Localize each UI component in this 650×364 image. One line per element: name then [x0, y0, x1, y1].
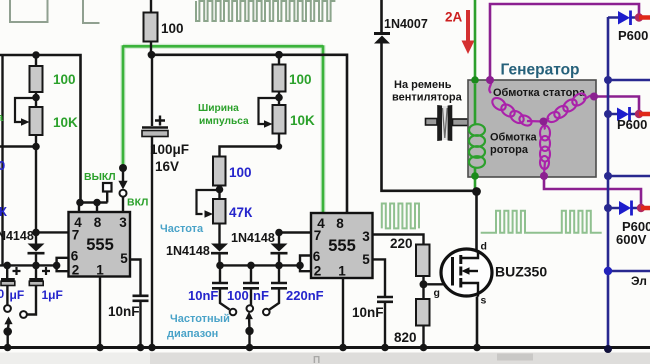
wire: U2 pin7	[279, 231, 311, 233]
wire: U1 pin1 to ground	[99, 277, 101, 348]
diode P600 (second)	[617, 108, 629, 122]
waveform trace 3 (PWM pulses above 220 resistor)	[382, 204, 419, 229]
capacitor 100uF 16V electrolytic	[151, 55, 153, 126]
svg-text:1μF: 1μF	[42, 288, 63, 302]
svg-text:0: 0	[0, 287, 5, 301]
switch wiper arrow (selector)	[248, 316, 251, 330]
svg-text:импульса: импульса	[199, 116, 249, 127]
node: diode 1 output	[635, 13, 643, 21]
svg-text:0: 0	[0, 158, 5, 173]
capacitor electrolytic 1uF	[35, 265, 37, 278]
svg-text:7: 7	[72, 228, 80, 243]
node: stator phase B tap	[590, 93, 598, 101]
wire: diode branch 2	[608, 113, 637, 116]
node: drain junction	[472, 187, 481, 196]
svg-text:100: 100	[227, 288, 249, 303]
svg-text:47К: 47К	[229, 205, 253, 220]
svg-text:1N4007: 1N4007	[384, 17, 428, 31]
svg-text:Частота: Частота	[160, 223, 204, 235]
node: 10K bottom	[32, 143, 40, 151]
wire: stator phase A to top bus (magenta)	[490, 4, 639, 78]
wire: 1N4007 to drain node	[382, 44, 477, 191]
svg-text:220nF: 220nF	[286, 288, 324, 303]
resistor 100 (top, black label)	[144, 13, 158, 42]
wire: left timing chain vertical	[35, 55, 37, 265]
svg-text:600V: 600V	[616, 232, 647, 247]
wire: pin 7 of U1	[36, 231, 69, 233]
svg-text:Ширина: Ширина	[198, 103, 239, 114]
red arrow (current direction)	[466, 10, 470, 42]
svg-text:BUZ350: BUZ350	[495, 264, 547, 280]
switch ВКЛ arm and contact	[119, 164, 127, 172]
wire: U2 pin6/pin2 bracket	[300, 256, 311, 272]
op-amp/timer U2 555	[311, 213, 373, 278]
potentiometer 10K (middle)	[273, 105, 286, 134]
svg-text:5: 5	[120, 251, 128, 266]
wire: green rotor feed	[474, 0, 477, 190]
wire: red output stub 2	[639, 112, 650, 117]
node: navy bus to ground	[604, 345, 612, 353]
svg-text:ВЫКЛ: ВЫКЛ	[84, 171, 116, 183]
svg-text:10nF: 10nF	[188, 288, 218, 303]
bottom gray band	[0, 353, 650, 364]
node: 100/10K junction	[32, 94, 40, 102]
wire: left capacitor bus	[0, 264, 57, 266]
svg-text:1N4148: 1N4148	[0, 229, 34, 243]
wire: navy stub y271	[608, 270, 650, 273]
wire: red output stub 3	[641, 206, 650, 211]
node: left selector on ground bus	[4, 344, 12, 352]
svg-text:10nF: 10nF	[352, 305, 384, 320]
svg-text:2А: 2А	[445, 10, 463, 25]
wire: timing capacitor bus	[220, 264, 300, 266]
svg-text:g: g	[434, 287, 440, 299]
bottom ground bus	[0, 346, 650, 349]
svg-text:2: 2	[314, 264, 322, 279]
svg-text:8: 8	[336, 216, 344, 231]
waveform trace 2 (fast square wave, top-middle)	[196, 1, 335, 21]
svg-text:1: 1	[96, 263, 104, 278]
svg-text:ротора: ротора	[490, 144, 529, 156]
svg-text:3: 3	[362, 229, 370, 244]
svg-text:Частотный: Частотный	[170, 313, 230, 325]
generator block	[468, 80, 596, 177]
diode 1N4007	[380, 0, 383, 33]
switch contact circles (left selector)	[4, 305, 11, 312]
wire: red output stub 1	[639, 15, 650, 20]
node: rail1/chain	[32, 51, 40, 59]
node: stator star point	[540, 118, 548, 126]
wire: supply rail 2	[152, 55, 348, 213]
node: stator phase A tap	[486, 76, 494, 84]
resistor 100 (middle, green label)	[278, 55, 280, 65]
svg-text:П: П	[313, 355, 320, 364]
svg-text:Эл: Эл	[631, 274, 647, 288]
wire: green enable net	[123, 45, 323, 213]
svg-text:s: s	[481, 295, 487, 307]
diode P600 600V (third)	[619, 201, 631, 215]
svg-text:100: 100	[53, 72, 76, 87]
svg-text:7: 7	[314, 228, 322, 243]
node: diode 2 output	[635, 110, 643, 118]
svg-text:μF: μF	[10, 288, 25, 302]
stator winding phase C coil	[544, 122, 546, 130]
stator winding phase B coil	[546, 91, 588, 124]
svg-text:100: 100	[161, 21, 184, 36]
rotor winding coil (green)	[469, 124, 485, 168]
wire: 10K bottom to left edge	[0, 145, 36, 147]
svg-text:6: 6	[313, 249, 321, 264]
node: pin7 junction (left)	[32, 229, 40, 237]
wire: diode branch 1	[608, 16, 638, 19]
wire: left edge vertical	[1, 55, 3, 265]
svg-text:2: 2	[72, 263, 80, 278]
svg-text:220: 220	[390, 236, 413, 251]
svg-text:3: 3	[119, 215, 127, 230]
svg-text:10K: 10K	[290, 113, 315, 128]
capacitor electrolytic (left edge, 10uF cut)	[6, 265, 8, 278]
wire: left supply rail 1	[0, 55, 81, 203]
wire: 10K bottom across to 100 (blue)	[220, 134, 280, 157]
wire: U1 pin6/pin2 bracket	[57, 258, 69, 271]
potentiometer 10K (left)	[30, 107, 43, 135]
capacitor 10nF (U1 pin5)	[133, 296, 149, 301]
svg-text:d: d	[481, 241, 487, 253]
stator winding phase A coil	[489, 80, 491, 93]
svg-text:555: 555	[328, 237, 356, 255]
svg-text:100μF: 100μF	[150, 142, 189, 157]
wire: feed from top to resistor 100	[150, 0, 152, 13]
potentiometer 47K	[213, 199, 226, 224]
pulley symbol	[426, 119, 438, 126]
svg-text:К: К	[0, 204, 7, 219]
diode 1N4148 (first, under 47K)	[211, 244, 228, 252]
diode 1N4148 (left of U1)	[28, 244, 45, 252]
wire: 10K wiper loop	[15, 98, 36, 122]
svg-text:Обмотка: Обмотка	[490, 132, 538, 144]
node: rotor top (green)	[471, 76, 479, 84]
svg-text:ВКЛ: ВКЛ	[127, 197, 148, 209]
svg-text:вентилятора: вентилятора	[392, 92, 463, 104]
wire: stator phase B to diode 2 (magenta)	[594, 97, 639, 112]
waveform trace 1 (slow square wave, top-left)	[10, 0, 100, 23]
svg-text:P600: P600	[618, 28, 648, 43]
switch ВЫКЛ contact (square)	[103, 183, 112, 192]
capacitor 10nF (selector)	[219, 265, 221, 282]
wire: 10K middle wiper loop	[259, 98, 280, 124]
switch contacts (frequency range selector)	[230, 309, 237, 316]
svg-text:Обмотка статора: Обмотка статора	[493, 87, 586, 99]
wire: stator phase C to diode 3 (magenta)	[544, 176, 641, 205]
capacitor 10nF (U2 pin5)	[377, 297, 393, 302]
wire: drain	[475, 192, 478, 251]
svg-text:10K: 10K	[53, 115, 78, 130]
transistor Q1 BUZ350 MOSFET	[441, 249, 492, 296]
svg-text:100: 100	[289, 72, 312, 87]
wire: navy stub y176	[608, 175, 650, 178]
waveform trace 4 (gate pulse bursts)	[481, 211, 602, 233]
wire: U2 pin3 output	[373, 235, 424, 245]
svg-text:1: 1	[338, 264, 346, 279]
resistor 220	[416, 245, 430, 277]
wire: rectifier negative bus (navy)	[607, 17, 610, 350]
wire: U2 pin1 to ground	[342, 278, 344, 348]
svg-text:На ремень: На ремень	[394, 79, 452, 91]
wire: diode branch 3	[608, 207, 639, 210]
node: stator phase C tap	[540, 172, 548, 180]
svg-text:диапазон: диапазон	[167, 328, 218, 340]
svg-text:5: 5	[362, 252, 370, 267]
wire: U1 pin5	[130, 260, 141, 296]
wire: gate drive	[428, 283, 451, 285]
switch wiper arrow (left selector)	[8, 322, 9, 332]
wire: U1 pins 4,8 top tie	[79, 203, 108, 213]
op-amp/timer U1 555	[69, 212, 131, 277]
svg-text:6: 6	[71, 249, 79, 264]
resistor 820	[416, 299, 430, 326]
diode 1N4148 (second)	[278, 233, 280, 266]
wire: 47K wiper loop	[197, 190, 220, 214]
wire: navy stub y80	[608, 79, 650, 82]
svg-text:8: 8	[94, 215, 102, 230]
svg-text:16V: 16V	[155, 159, 179, 174]
capacitor 100nF (selector)	[250, 265, 252, 282]
svg-text:555: 555	[86, 236, 114, 254]
svg-text:820: 820	[394, 330, 417, 345]
wire: source to ground	[476, 297, 479, 348]
wire: U2 pin5	[373, 259, 386, 296]
diode P600 (top)	[618, 11, 630, 25]
svg-text:10nF: 10nF	[108, 304, 140, 319]
node: rotor bottom (green)	[471, 172, 479, 180]
resistor 100 (blue label)	[213, 157, 226, 186]
svg-text:100: 100	[229, 165, 252, 180]
svg-text:nF: nF	[253, 288, 269, 303]
resistor 100 (left, green label)	[30, 66, 43, 92]
svg-text:1N4148: 1N4148	[166, 244, 210, 258]
wire: 47K to diode	[218, 224, 220, 266]
capacitor 220nF (selector)	[278, 265, 280, 282]
svg-text:Генератор: Генератор	[501, 62, 580, 79]
svg-text:1N4148: 1N4148	[231, 231, 275, 245]
svg-text:P600: P600	[617, 117, 647, 132]
node: diode 3 output	[637, 204, 645, 212]
